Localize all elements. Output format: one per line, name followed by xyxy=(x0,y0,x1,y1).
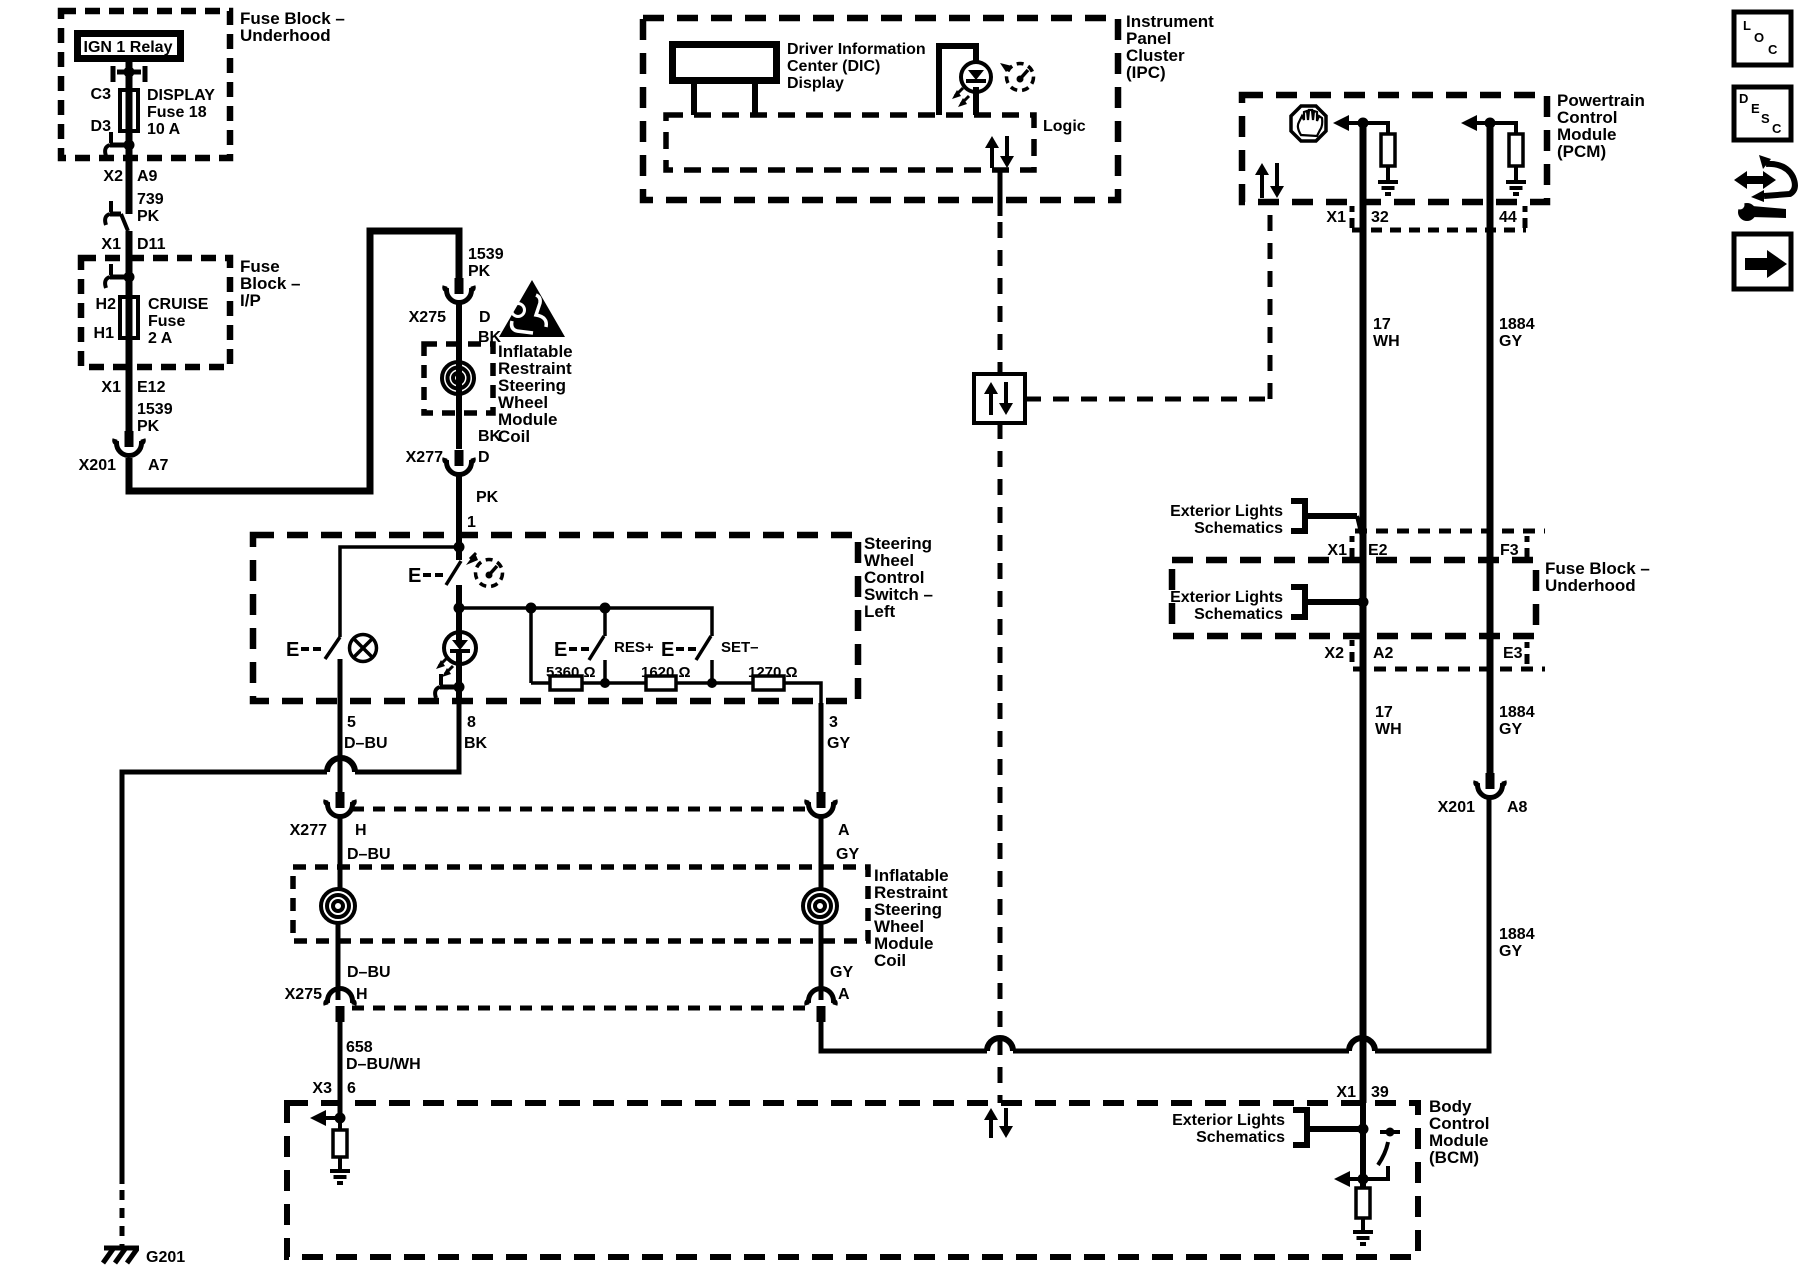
inline connector X201 pin A7 xyxy=(125,431,134,447)
svg-text:D: D xyxy=(478,449,490,466)
svg-text:E3: E3 xyxy=(1503,645,1523,662)
svg-text:(PCM): (PCM) xyxy=(1557,142,1606,161)
svg-text:Center (DIC): Center (DIC) xyxy=(787,58,880,75)
wire GY from X275-A down and right to X201-A8 xyxy=(821,1022,987,1051)
svg-text:Display: Display xyxy=(787,75,844,92)
svg-text:Driver Information: Driver Information xyxy=(787,41,926,58)
svg-text:Exterior Lights: Exterior Lights xyxy=(1170,503,1283,520)
svg-text:WH: WH xyxy=(1375,721,1402,738)
svg-text:Coil: Coil xyxy=(498,427,530,446)
relay IGN 1 xyxy=(78,34,181,59)
svg-text:H1: H1 xyxy=(94,325,115,342)
inflatable restraint steering wheel module coil (lower) dashed box xyxy=(293,867,868,941)
svg-text:44: 44 xyxy=(1499,209,1517,226)
svg-text:17: 17 xyxy=(1375,704,1393,721)
branch wire to resistor 5360 xyxy=(529,608,533,683)
relay output tap symbol xyxy=(111,66,116,82)
svg-text:Schematics: Schematics xyxy=(1196,1129,1285,1146)
wire to fuse block I/P xyxy=(126,231,133,295)
steering wheel control switch - left dashed box xyxy=(253,535,858,701)
svg-text:E: E xyxy=(408,565,421,587)
serial data line (solid, inside IPC) xyxy=(998,170,1003,216)
svg-text:Underhood: Underhood xyxy=(240,26,331,45)
margin icon right-arrow box xyxy=(1734,234,1791,289)
svg-text:DISPLAY: DISPLAY xyxy=(147,87,215,104)
inline connector X201 pin A8 xyxy=(1486,773,1495,789)
driver information center display rectangle xyxy=(673,45,777,81)
svg-text:H: H xyxy=(355,822,367,839)
svg-text:X3: X3 xyxy=(312,1080,332,1097)
svg-text:A9: A9 xyxy=(137,168,158,185)
clip on BK wire xyxy=(439,674,443,685)
wire X277-A to coil box xyxy=(819,818,824,889)
inline connector X277 pin D xyxy=(455,450,464,466)
svg-text:E: E xyxy=(1751,101,1760,116)
svg-text:D11: D11 xyxy=(137,236,166,253)
svg-text:Left: Left xyxy=(864,602,896,621)
RES+ switch xyxy=(603,608,607,636)
wire X277-D into switch box xyxy=(456,476,462,547)
inline connector X275 pin A xyxy=(807,989,836,1006)
wire X1-39 down inside BCM xyxy=(1360,1103,1366,1188)
junction dot at bus xyxy=(454,603,465,614)
resistor 5360 ohm xyxy=(550,676,582,690)
svg-text:2 A: 2 A xyxy=(148,330,173,347)
svg-text:6: 6 xyxy=(347,1080,356,1097)
wire below on-off switch to pin 5 xyxy=(338,659,343,703)
IPC cruise set-speed icon xyxy=(1007,64,1034,91)
BCM resistor to ground xyxy=(1356,1188,1370,1218)
svg-text:Schematics: Schematics xyxy=(1194,520,1283,537)
wire LED down xyxy=(456,651,462,703)
wire pin 8 down then left to ground run (BK) xyxy=(355,703,459,772)
wire below cruise switch xyxy=(456,585,462,633)
svg-text:Exterior Lights: Exterior Lights xyxy=(1172,1112,1285,1129)
wire 658 D-BU/WH down to BCM xyxy=(338,1022,343,1118)
fuse CRUISE Fuse 2A xyxy=(120,297,138,338)
svg-text:E: E xyxy=(661,639,674,661)
inline connector X277 pin A xyxy=(817,792,826,808)
junction dot row 1 xyxy=(600,678,610,688)
PCM pull-up resistor pin 32 xyxy=(1363,123,1388,134)
svg-text:C: C xyxy=(1768,42,1778,57)
margin icon LOC xyxy=(1734,12,1791,65)
wire from X201-A7 routed up to X275 xyxy=(129,231,459,491)
inline connector X277 pin H xyxy=(336,792,345,808)
svg-text:X1: X1 xyxy=(1327,542,1347,559)
svg-text:C: C xyxy=(1772,121,1782,136)
clip above cruise fuse xyxy=(109,264,113,275)
resistor 1620 ohm xyxy=(646,676,676,690)
logic dashed box xyxy=(666,115,1034,170)
svg-text:CRUISE: CRUISE xyxy=(148,296,209,313)
svg-text:X275: X275 xyxy=(285,986,322,1003)
margin icon arrows-wrench xyxy=(1734,171,1776,189)
BCM arrow at junction xyxy=(1346,1177,1363,1181)
junction dot bus 1 xyxy=(526,603,537,614)
svg-text:39: 39 xyxy=(1371,1084,1389,1101)
resistor 1270 ohm xyxy=(753,676,784,690)
resistor row wire xyxy=(531,681,550,685)
indicator lamp symbol (circle-X) xyxy=(350,635,377,662)
svg-text:3: 3 xyxy=(829,714,838,731)
svg-text:A2: A2 xyxy=(1373,645,1394,662)
serial data dashed line IPC to gateway symbol xyxy=(998,222,1003,374)
svg-text:F3: F3 xyxy=(1500,542,1519,559)
svg-text:PK: PK xyxy=(476,489,499,506)
inflatable restraint steering wheel module coil (upper) dashed box xyxy=(424,344,493,413)
svg-text:5360 Ω: 5360 Ω xyxy=(546,664,596,681)
svg-text:D3: D3 xyxy=(91,118,112,135)
svg-text:GY: GY xyxy=(1499,333,1522,350)
svg-text:D–BU: D–BU xyxy=(347,846,391,863)
svg-text:Fuse: Fuse xyxy=(148,313,185,330)
margin icon DESC xyxy=(1734,87,1791,140)
svg-text:1539: 1539 xyxy=(468,246,504,263)
svg-text:1: 1 xyxy=(467,514,476,531)
svg-text:X2: X2 xyxy=(1324,645,1344,662)
wire X275-D to coil xyxy=(456,303,462,449)
wire fuse to X2-A9 xyxy=(126,145,133,214)
svg-text:D–BU/WH: D–BU/WH xyxy=(346,1056,421,1073)
PCM input arrow pin 44 xyxy=(1473,121,1490,125)
svg-text:BK: BK xyxy=(464,735,488,752)
svg-text:739: 739 xyxy=(137,191,164,208)
svg-text:X1: X1 xyxy=(101,236,121,253)
body control module dashed box xyxy=(287,1103,1418,1257)
svg-text:17: 17 xyxy=(1373,316,1391,333)
svg-text:Exterior Lights: Exterior Lights xyxy=(1170,589,1283,606)
wire 17 WH from PCM pin 32 xyxy=(1360,123,1367,1103)
svg-text:S: S xyxy=(1761,111,1770,126)
coil symbol lower-right xyxy=(803,889,837,923)
svg-text:PK: PK xyxy=(137,418,160,435)
svg-text:8: 8 xyxy=(467,714,476,731)
svg-text:E: E xyxy=(554,639,567,661)
svg-text:X277: X277 xyxy=(290,822,327,839)
svg-text:E12: E12 xyxy=(137,379,166,396)
svg-text:IGN 1 Relay: IGN 1 Relay xyxy=(84,39,173,56)
svg-text:RES+: RES+ xyxy=(614,639,654,656)
PCM pull-up resistor pin 44 xyxy=(1490,123,1516,134)
fuse block - underhood (right) dashed box xyxy=(1172,560,1536,636)
junction dot row 2 xyxy=(707,678,717,688)
svg-text:1884: 1884 xyxy=(1499,704,1535,721)
cruise set-speed icon xyxy=(476,560,503,587)
clip under fuse 18 xyxy=(109,132,113,143)
svg-text:H2: H2 xyxy=(96,296,117,313)
svg-text:X201: X201 xyxy=(1438,799,1475,816)
wire coil to X275-H xyxy=(336,923,341,1000)
svg-text:1884: 1884 xyxy=(1499,926,1535,943)
svg-text:X201: X201 xyxy=(79,457,116,474)
svg-text:(BCM): (BCM) xyxy=(1429,1148,1479,1167)
svg-text:D–BU: D–BU xyxy=(344,735,388,752)
wire X277-H to coil box xyxy=(338,818,343,889)
PCM stop-hand symbol xyxy=(1291,106,1326,141)
wire pin 3 down (GY) xyxy=(819,703,824,792)
inline connector X275 pin D xyxy=(455,278,464,294)
SET- switch xyxy=(696,636,711,660)
IPC cruise indicator LED xyxy=(939,46,976,115)
svg-text:I/P: I/P xyxy=(240,291,261,310)
DIC display legs xyxy=(691,84,697,115)
BCM left input arrow (658) xyxy=(322,1116,340,1120)
svg-text:A7: A7 xyxy=(148,457,169,474)
svg-text:(IPC): (IPC) xyxy=(1126,63,1166,82)
svg-text:D–BU: D–BU xyxy=(347,964,391,981)
clip at X1-D11 xyxy=(109,201,113,212)
svg-text:SET–: SET– xyxy=(721,639,759,656)
svg-text:GY: GY xyxy=(827,735,850,752)
hop over 17 WH wire xyxy=(1349,1038,1375,1051)
serial data dashed line gateway to BCM xyxy=(998,423,1003,1103)
coil symbol lower-left xyxy=(321,889,355,923)
svg-text:X2: X2 xyxy=(103,168,123,185)
svg-text:X275: X275 xyxy=(409,309,446,326)
svg-text:GY: GY xyxy=(1499,943,1522,960)
svg-text:1884: 1884 xyxy=(1499,316,1535,333)
svg-text:E2: E2 xyxy=(1368,542,1388,559)
logic serial updown arrows xyxy=(990,145,994,168)
svg-text:A8: A8 xyxy=(1507,799,1528,816)
svg-text:BK: BK xyxy=(478,428,502,445)
hop over serial data line xyxy=(987,1038,1013,1051)
svg-text:10 A: 10 A xyxy=(147,121,181,138)
svg-text:X1: X1 xyxy=(1336,1084,1356,1101)
wire 1884 GY from PCM pin 44 xyxy=(1487,123,1494,773)
svg-text:A: A xyxy=(838,986,850,1003)
inline connector X275 pin H xyxy=(326,989,355,1006)
IPC LED emission arrows xyxy=(955,88,963,96)
BCM switch symbol xyxy=(1380,1130,1400,1134)
svg-text:E: E xyxy=(286,639,299,661)
svg-text:32: 32 xyxy=(1371,209,1389,226)
SRS warning triangle xyxy=(499,280,565,337)
junction node pin1 xyxy=(454,542,465,553)
svg-text:WH: WH xyxy=(1373,333,1400,350)
svg-text:A: A xyxy=(838,822,850,839)
wire relay to fuse xyxy=(126,62,133,92)
svg-text:D: D xyxy=(479,309,491,326)
svg-text:GY: GY xyxy=(836,846,859,863)
LED indicator in switch (on BK line) xyxy=(444,632,476,664)
svg-text:O: O xyxy=(1754,30,1764,45)
serial data gateway box with updown arrows xyxy=(974,374,1025,423)
fuse DISPLAY Fuse 18 10A xyxy=(120,90,138,131)
fuse block - I/P dashed box xyxy=(81,258,230,367)
LED emission arrows xyxy=(439,658,447,666)
wire pin 5 down (D-BU) xyxy=(338,703,343,792)
svg-text:PK: PK xyxy=(137,208,160,225)
PCM input arrow pin 32 xyxy=(1345,121,1363,125)
svg-text:658: 658 xyxy=(346,1039,373,1056)
X277 dotted connector line xyxy=(352,807,807,812)
cruise main switch blade xyxy=(456,547,462,560)
svg-text:GY: GY xyxy=(1499,721,1522,738)
svg-text:Fuse 18: Fuse 18 xyxy=(147,104,207,121)
svg-text:X1: X1 xyxy=(1326,209,1346,226)
svg-text:X1: X1 xyxy=(101,379,121,396)
coil symbol (upper) xyxy=(442,362,474,394)
X275 dotted connector line xyxy=(352,1006,807,1011)
svg-text:X277: X277 xyxy=(406,449,443,466)
svg-text:Schematics: Schematics xyxy=(1194,606,1283,623)
on-off switch blade xyxy=(325,637,340,659)
wire coil to X275-A xyxy=(819,923,824,1000)
fuse block underhood connector strip top (X1 E2 F3) xyxy=(1355,529,1545,534)
BCM updown arrows xyxy=(989,1117,993,1138)
BK ground wire dashed tail xyxy=(120,1190,125,1247)
svg-text:1539: 1539 xyxy=(137,401,173,418)
tap wire to on-off switch xyxy=(340,547,459,637)
junction dot bus 2 xyxy=(600,603,611,614)
svg-text:C3: C3 xyxy=(91,86,112,103)
instrument panel cluster dashed box xyxy=(643,18,1118,200)
PCM updown arrows xyxy=(1260,172,1264,198)
svg-text:D: D xyxy=(1739,91,1748,106)
cruise switch arrow xyxy=(466,553,478,565)
svg-text:H: H xyxy=(356,986,368,1003)
resistor bus line xyxy=(459,608,712,636)
svg-text:GY: GY xyxy=(830,964,853,981)
svg-text:G201: G201 xyxy=(146,1249,185,1266)
powertrain control module dashed box xyxy=(1242,95,1547,202)
BCM left resistor to ground xyxy=(338,1118,342,1130)
wire resistor row to pin 3 xyxy=(784,683,821,703)
svg-text:1270 Ω: 1270 Ω xyxy=(748,664,798,681)
fuse block - underhood (top left) dashed box xyxy=(61,11,230,158)
svg-text:1620 Ω: 1620 Ω xyxy=(641,664,691,681)
svg-text:Coil: Coil xyxy=(874,951,906,970)
ground G201 xyxy=(104,1246,139,1251)
svg-text:L: L xyxy=(1743,18,1751,33)
svg-text:Logic: Logic xyxy=(1043,118,1086,135)
svg-text:PK: PK xyxy=(468,263,491,280)
serial data dashed line gateway to PCM xyxy=(1025,397,1270,402)
svg-text:Underhood: Underhood xyxy=(1545,576,1636,595)
svg-text:5: 5 xyxy=(347,714,356,731)
